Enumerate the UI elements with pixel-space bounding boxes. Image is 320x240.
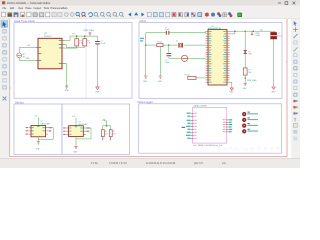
page frame border [10, 19, 287, 157]
resistor Rb [109, 130, 112, 137]
svg-text:R?: R? [73, 33, 75, 35]
IC U3 sensor [31, 125, 46, 136]
LED chain on x=245 [244, 31, 246, 50]
svg-text:Z 1.52: Z 1.52 [91, 163, 98, 165]
wires right of IC [65, 36, 98, 87]
ground second rail [159, 76, 162, 78]
svg-text:X 154.94 Y 47.24: X 154.94 Y 47.24 [109, 163, 127, 165]
status bar [0, 159, 300, 169]
junction dots [76, 35, 77, 36]
toolbar [0, 11, 300, 20]
loop wire [38, 128, 53, 140]
ground GND2 under cap [96, 87, 100, 90]
mounting hole H1 [242, 112, 258, 117]
MCU right pin stubs [227, 32, 230, 83]
pin stubs left of IC [36, 47, 38, 49]
svg-text:GND: GND [230, 91, 235, 93]
svg-text:DS1307: DS1307 [44, 36, 52, 38]
sheet: sensors right [62, 104, 130, 154]
window background [0, 0, 300, 168]
MCU bottom-right ground [230, 82, 232, 88]
svg-text:FLAG: FLAG [256, 34, 261, 37]
pullup resistor pair [101, 119, 116, 140]
svg-text:mm: mm [222, 163, 226, 165]
svg-text:Help: Help [63, 7, 69, 10]
svg-text:R?: R? [105, 131, 107, 133]
sheet: MCU (top-right) [139, 19, 282, 98]
svg-text:4.7k: 4.7k [113, 133, 116, 135]
IC inner pin names [39, 40, 62, 64]
svg-text:dx 154.94 dy 47.24 d 161.98: dx 154.94 dy 47.24 d 161.98 [146, 163, 176, 165]
svg-text:T: T [294, 117, 297, 122]
right sheet pins [225, 120, 228, 132]
svg-text:GND: GND [158, 81, 163, 83]
window controls [278, 2, 295, 5]
svg-text:GND: GND [95, 92, 100, 94]
svg-text:GND: GND [243, 88, 248, 90]
net label left edge [140, 38, 144, 39]
svg-text:R?: R? [113, 131, 115, 133]
svg-text:GND: GND [73, 151, 78, 153]
sensor circuit 1 [26, 115, 54, 150]
MCU left pin stubs [206, 32, 208, 83]
mounting hole H4 [242, 129, 258, 134]
wire battery top to IC [19, 48, 35, 53]
crystal Y1 [179, 43, 183, 48]
resistor R4 bottom horizontal [188, 76, 196, 79]
svg-text:grid 1.27: grid 1.27 [194, 162, 204, 165]
svg-text:GND: GND [143, 81, 148, 83]
capacitor C3 [166, 54, 171, 56]
resistor Ra [101, 130, 104, 137]
IC U4 sensor [69, 126, 84, 137]
svg-text:J?: J? [278, 33, 280, 35]
svg-text:Tools: Tools [44, 7, 50, 10]
sheet: Real Time Clock (top-left) [14, 19, 132, 98]
ground left rail [144, 76, 147, 78]
IC U1 RTC [38, 38, 62, 69]
right toolbar [292, 19, 301, 160]
capacitor C2 on top rail [166, 31, 169, 35]
barrel jack J1 [271, 32, 277, 39]
left pins [29, 128, 31, 134]
svg-text:4.7k: 4.7k [79, 43, 82, 45]
barrel jack ground wire [273, 41, 275, 87]
left sheet pins [191, 113, 194, 138]
svg-text:DATA LOGGER — Schematic Editor: DATA LOGGER — Schematic Editor [7, 1, 50, 5]
svg-text:22pF: 22pF [165, 29, 169, 31]
MCU U2 ATmega328 [208, 30, 227, 86]
MCU inner pin names [209, 31, 227, 82]
ground wire [37, 139, 39, 141]
svg-text:Edit: Edit [10, 7, 14, 10]
mounting hole H3 [242, 123, 258, 128]
mounting hole H2 [242, 117, 258, 122]
global label far left [182, 127, 186, 128]
svg-text:4.7k: 4.7k [105, 133, 108, 135]
app icon [2, 1, 5, 4]
left toolbar [0, 19, 9, 160]
IC right pin stubs [62, 41, 65, 64]
sensor circuit 2 [63, 116, 91, 154]
svg-text:DHT22-AM: DHT22-AM [78, 123, 87, 126]
svg-text:PWR_FLAG: PWR_FLAG [84, 29, 95, 32]
svg-text:Y?: Y? [176, 41, 178, 43]
inner pin names of sheet [194, 113, 225, 139]
svg-text:R? 10k: R? 10k [185, 75, 191, 77]
ground GND1 under IC [65, 86, 68, 88]
wire battery bottom to IC [19, 58, 35, 61]
resistor R3 horizontal [157, 44, 163, 47]
PWR_FLAG symbol on rail [251, 31, 253, 35]
sheet: data logger root (bottom-right) [138, 100, 282, 153]
canvas [9, 19, 292, 159]
svg-text:DHT22-AM: DHT22-AM [41, 122, 50, 125]
svg-text:330: 330 [248, 72, 251, 74]
title bar [0, 0, 300, 6]
top power rail [230, 30, 276, 32]
svg-text:4.7k: 4.7k [87, 43, 90, 45]
wire down to IC [37, 117, 39, 125]
inner pin names [32, 126, 45, 135]
svg-text:Place: Place [26, 7, 33, 10]
svg-text:GND: GND [271, 91, 276, 93]
svg-text:22pF: 22pF [165, 62, 169, 64]
resonator circle component [182, 55, 188, 61]
svg-text:DATA LOGGER: DATA LOGGER [218, 146, 283, 151]
svg-text:Barrel: Barrel [277, 35, 282, 37]
svg-text:File: File [3, 7, 8, 10]
svg-text:GND: GND [36, 148, 41, 150]
right pins [46, 128, 48, 134]
menu bar [0, 6, 300, 11]
svg-text:GND: GND [65, 90, 70, 92]
wire top rail to MCU [146, 32, 206, 78]
capacitor C1 [95, 42, 100, 44]
svg-text:R? 10k: R? 10k [157, 42, 163, 44]
resistor R2 pullup [83, 39, 87, 46]
svg-text:PWR_FLAG: PWR_FLAG [247, 79, 257, 82]
svg-text:Inspect: Inspect [34, 7, 42, 10]
svg-text:View: View [18, 7, 23, 10]
sheet: sensors left (bottom-left) [14, 100, 62, 154]
svg-text:GND: GND [26, 58, 31, 60]
resistor R1 pullup [75, 39, 79, 46]
battery BT1 [17, 53, 22, 58]
toolbar icons [2, 12, 93, 17]
